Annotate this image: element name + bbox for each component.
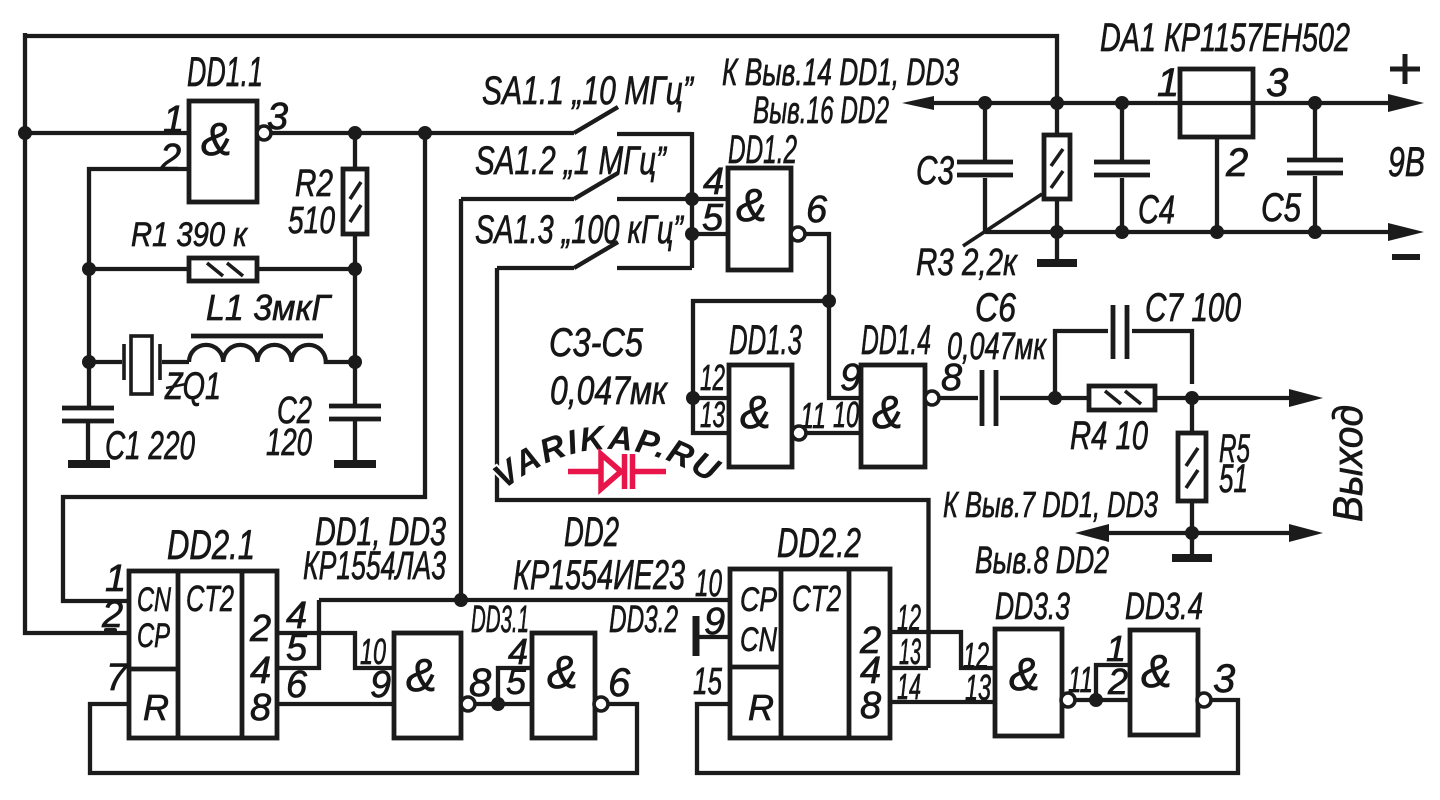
node DD3.2 input tie junction	[491, 697, 505, 711]
svg-text:1: 1	[163, 99, 184, 141]
wire DD3.4 pin 1 jumper	[1096, 665, 1130, 700]
svg-text:120: 120	[266, 422, 312, 464]
resistor R1	[89, 267, 355, 271]
wire left bus down to DD2.1 pin 2	[25, 33, 129, 633]
wire DD1.3 input bracket	[693, 301, 829, 433]
svg-text:DA1 КР1157ЕН502: DA1 КР1157ЕН502	[1100, 16, 1350, 60]
wire DA1 pin 2 to minus rail	[1215, 137, 1219, 232]
node DD1.2 pin 4 junction	[685, 192, 699, 206]
wire SA1.3 riser and cross link to DD2.2 output 4	[497, 268, 929, 668]
node DD3.4 input tie junction	[1089, 693, 1103, 707]
svg-text:6: 6	[608, 661, 631, 705]
svg-text:51: 51	[1219, 457, 1248, 501]
svg-text:R4 10: R4 10	[1070, 414, 1148, 458]
wire DD2.1 pin 7 reset loop from DD3.2 output	[90, 704, 637, 773]
svg-text:2: 2	[159, 137, 181, 179]
node output arrowhead	[1289, 389, 1323, 407]
wire DD3.2 pin 4 jumper	[498, 668, 532, 704]
wire lower pin7/8 distribution line	[1107, 531, 1294, 535]
svg-text:13: 13	[700, 394, 725, 435]
svg-text:К Выв.7 DD1, DD3: К Выв.7 DD1, DD3	[943, 484, 1158, 525]
svg-text:8: 8	[469, 661, 492, 705]
crystal ZQ1	[89, 360, 189, 364]
svg-text:DD1.1: DD1.1	[187, 48, 263, 95]
switch SA1.3	[497, 242, 692, 268]
diode varicap watermark symbol	[568, 454, 666, 489]
node R4 output junction	[1185, 391, 1199, 405]
wire DD1.2 pin 4	[692, 197, 728, 201]
svg-text:12: 12	[700, 357, 725, 398]
svg-text:6: 6	[286, 664, 308, 706]
svg-text:DD2.2: DD2.2	[777, 519, 861, 566]
wire DD1.3 pin 12	[693, 396, 729, 400]
switch SA1.2	[461, 173, 692, 199]
wire DD2.1 output 2 to DD3.1 pin 10	[277, 633, 394, 668]
voltage regulator DA1	[1180, 69, 1253, 137]
svg-text:&: &	[1141, 645, 1172, 697]
resistor R4	[1055, 396, 1192, 400]
svg-text:1: 1	[1157, 61, 1179, 105]
svg-text:CN: CN	[137, 581, 171, 619]
wire DD2.2 pin 9 stub	[697, 635, 730, 639]
capacitor C6	[982, 370, 996, 426]
svg-text:DD3.3: DD3.3	[995, 586, 1070, 628]
svg-text:DD2: DD2	[564, 508, 619, 555]
svg-text:CP: CP	[137, 617, 170, 655]
svg-text:CT2: CT2	[792, 578, 841, 619]
svg-text:CN: CN	[740, 621, 777, 659]
ground R3	[1037, 259, 1077, 267]
capacitor C4	[1120, 103, 1124, 232]
node left arrowhead к выв.7	[1075, 524, 1109, 542]
svg-text:3: 3	[1266, 61, 1288, 105]
svg-text:Выход: Выход	[1324, 405, 1371, 522]
node minus junction C4	[1115, 225, 1129, 239]
wire DD1.3 output to DD1.4 pin 10	[806, 431, 861, 435]
svg-text:13: 13	[965, 667, 991, 708]
wire DD1.2 output riser to DD1.4 pin 9	[805, 234, 861, 398]
svg-text:2: 2	[249, 608, 271, 650]
capacitor C1	[62, 408, 114, 421]
wire DD1.4 output to C6	[939, 396, 978, 400]
node L1 right junction	[348, 355, 362, 369]
svg-text:L1 3мкГ: L1 3мкГ	[206, 287, 332, 328]
svg-text:510: 510	[288, 200, 335, 242]
inductor L1	[189, 345, 355, 362]
svg-text:7: 7	[106, 657, 129, 699]
node minus junction C5	[1308, 225, 1322, 239]
node oscillator output branch junction	[418, 126, 432, 140]
svg-text:К Выв.14 DD1, DD3: К Выв.14 DD1, DD3	[722, 52, 959, 94]
wire top supply loop from DD1.1 rail to DA1 input	[25, 36, 1057, 103]
svg-text:&: &	[406, 649, 437, 701]
resistor R2	[353, 133, 357, 269]
wire output arrow line	[1192, 396, 1294, 400]
svg-text:11: 11	[1068, 659, 1093, 700]
svg-text:КР1554ЛА3: КР1554ЛА3	[303, 544, 446, 588]
wire oscillator branch riser to DD2.1 pin 1	[63, 133, 425, 601]
node inversion bubble DD1.4 output	[925, 391, 939, 405]
svg-text:C3: C3	[916, 149, 954, 193]
ground C2	[334, 460, 376, 468]
svg-text:5: 5	[506, 661, 527, 702]
svg-text:&: &	[1009, 648, 1040, 700]
svg-text:3: 3	[1213, 657, 1235, 701]
counter DD2.1	[129, 571, 277, 738]
svg-text:15: 15	[693, 661, 723, 703]
svg-text:&: &	[201, 113, 232, 165]
wire DD2.2 pin 15 reset loop from DD3.4 output	[697, 700, 1238, 773]
switch SA1.1	[574, 107, 692, 134]
node rail junction R3	[1050, 96, 1064, 110]
op-amp gate DD3.1	[394, 633, 461, 738]
svg-text:10: 10	[695, 563, 722, 605]
node supply right arrowhead	[1388, 94, 1424, 112]
svg-text:Выв.16 DD2: Выв.16 DD2	[753, 90, 889, 132]
svg-text:&: &	[872, 386, 903, 438]
wire DD2.1 output 4 riser to bus	[277, 600, 319, 668]
node inversion bubble DD3.4 output	[1197, 693, 1211, 707]
svg-text:C3-C5: C3-C5	[549, 321, 644, 365]
op-amp gate DD1.3	[729, 365, 792, 467]
svg-text:C1 220: C1 220	[105, 424, 195, 468]
svg-text:14: 14	[897, 666, 921, 707]
wire DD1.1 pin 1 input	[25, 131, 189, 135]
svg-text:C7 100: C7 100	[1145, 286, 1241, 330]
svg-text:CP: CP	[740, 581, 777, 619]
op-amp gate DD1.1	[189, 101, 257, 202]
wire DD1.1 pin 2 to feedback column	[89, 169, 189, 409]
op-amp gate DD3.4	[1130, 630, 1198, 735]
node minus junction DA1 pin2	[1210, 225, 1224, 239]
wire DD1.1 output to SA1.1	[271, 131, 574, 135]
node minus junction R3	[1050, 225, 1064, 239]
svg-text:R3 2,2к: R3 2,2к	[916, 242, 1019, 284]
capacitor C2	[329, 406, 381, 419]
capacitor C3	[983, 103, 987, 232]
capacitor C7	[1113, 305, 1127, 359]
svg-text:DD3.2: DD3.2	[609, 599, 678, 641]
node inversion bubble DD1.2 output	[791, 227, 805, 241]
wire DD2.1 output 8 to DD3.1 pin 9	[277, 702, 394, 706]
ground C1	[68, 460, 110, 468]
svg-text:&: &	[736, 179, 767, 231]
svg-text:C4: C4	[1138, 188, 1175, 232]
node ZQ1 left junction	[82, 355, 96, 369]
op-amp gate DD1.2	[728, 168, 791, 270]
wire right oscillator column	[353, 269, 357, 406]
node inversion bubble DD1.1 output	[257, 126, 271, 140]
svg-text:9В: 9В	[1388, 138, 1425, 185]
svg-text:2: 2	[1225, 141, 1248, 185]
wire DD2.2 output 2 to DD3.3 pin 12	[890, 632, 995, 668]
op-amp gate DD1.4	[861, 365, 925, 467]
svg-text:5: 5	[286, 627, 308, 669]
svg-text:8: 8	[860, 685, 881, 727]
wire DD3.1 output to DD3.2	[475, 702, 532, 706]
svg-text:4: 4	[250, 650, 271, 692]
node R1 left junction	[82, 262, 96, 276]
wire DD2.2 output 4 stub	[890, 666, 928, 670]
svg-text:0,047мк: 0,047мк	[550, 369, 669, 413]
node inversion bubble DD3.2 output	[594, 697, 608, 711]
svg-text:5: 5	[702, 197, 724, 239]
node DD1.3 input branch junction	[822, 294, 836, 308]
node R5 bottom junction	[1185, 526, 1199, 540]
node C6 / C7 branch junction	[1048, 391, 1062, 405]
svg-text:R: R	[143, 687, 169, 728]
wire DD3.3 output to DD3.4	[1075, 698, 1130, 702]
svg-text:Выв.8 DD2: Выв.8 DD2	[975, 540, 1109, 582]
node rail junction C3	[978, 96, 992, 110]
svg-text:CT2: CT2	[186, 578, 234, 619]
node rail junction C5	[1308, 96, 1322, 110]
svg-text:2: 2	[1107, 661, 1128, 702]
node R2 top junction	[348, 126, 362, 140]
svg-text:R: R	[748, 687, 774, 728]
node rail junction C4	[1115, 96, 1129, 110]
svg-text:&: &	[547, 646, 578, 698]
node SA1.2 riser junction on bus	[454, 593, 468, 607]
node inversion bubble DD1.3 output	[792, 426, 806, 440]
wire DD1.2 pin 5	[692, 232, 728, 236]
node inversion bubble DD3.3 output	[1061, 693, 1075, 707]
svg-text:0,047мк: 0,047мк	[947, 326, 1047, 368]
node minus rail arrowhead	[1388, 223, 1424, 241]
svg-text:DD2.1: DD2.1	[167, 521, 255, 568]
wire DA1 minus rail	[985, 230, 1392, 234]
resistor R5	[1190, 398, 1194, 533]
watermark VARIKAP.RU	[486, 419, 734, 500]
svg-text:DD1.3: DD1.3	[729, 316, 802, 363]
resistor R3	[1055, 103, 1059, 262]
svg-text:R1 390 к: R1 390 к	[131, 216, 249, 254]
svg-text:DD1.4: DD1.4	[861, 316, 931, 363]
svg-text:DD3.4: DD3.4	[1125, 586, 1203, 628]
svg-text:8: 8	[250, 687, 271, 729]
svg-text:10: 10	[833, 394, 859, 435]
node DD1.3 pin 12 junction	[686, 391, 700, 405]
wire C7 branch	[1055, 331, 1192, 398]
node inversion bubble DD3.1 output	[461, 697, 475, 711]
svg-text:КР1554ИЕ23: КР1554ИЕ23	[513, 551, 685, 598]
svg-text:9: 9	[370, 664, 391, 706]
node junction left bus / DD1.1 pin1	[18, 126, 32, 140]
ground R5	[1190, 533, 1194, 556]
svg-text:DD1.2: DD1.2	[728, 128, 797, 172]
wire selection bus DD2.1 to DD2.2 pin 10	[319, 598, 730, 602]
svg-text:SA1.1 „10 МГц”: SA1.1 „10 МГц”	[482, 69, 694, 113]
wire DD2.2 output 8 to DD3.3 pin 13	[890, 700, 995, 704]
svg-text:C6: C6	[975, 286, 1017, 330]
label minus	[1392, 254, 1420, 260]
node pin 9 terminator bar	[693, 616, 700, 656]
node DD1.2 pin 5 junction	[685, 227, 699, 241]
wire DA1 top rail	[930, 101, 1390, 105]
svg-text:SA1.2 „1 МГц”: SA1.2 „1 МГц”	[475, 139, 667, 183]
op-amp gate DD3.2	[532, 633, 595, 738]
op-amp gate DD3.3	[995, 629, 1062, 736]
label +	[1390, 54, 1420, 84]
node ink blob on pin 2 wire	[104, 628, 117, 635]
counter DD2.2	[730, 569, 890, 738]
svg-text:R2: R2	[295, 163, 333, 205]
capacitor C5	[1313, 103, 1317, 232]
svg-text:SA1.3 „100 кГц”: SA1.3 „100 кГц”	[475, 208, 684, 252]
svg-text:9: 9	[840, 357, 861, 399]
wire switch common column	[690, 132, 694, 268]
svg-text:C5: C5	[1261, 186, 1302, 230]
node R1 right junction	[348, 262, 362, 276]
node right arrowhead lower	[1289, 524, 1323, 542]
svg-text:&: &	[740, 386, 771, 438]
node supply left arrowhead	[902, 96, 934, 110]
wire SA1.2 riser to DD2.1 output bus	[459, 199, 463, 600]
svg-text:6: 6	[806, 189, 828, 231]
